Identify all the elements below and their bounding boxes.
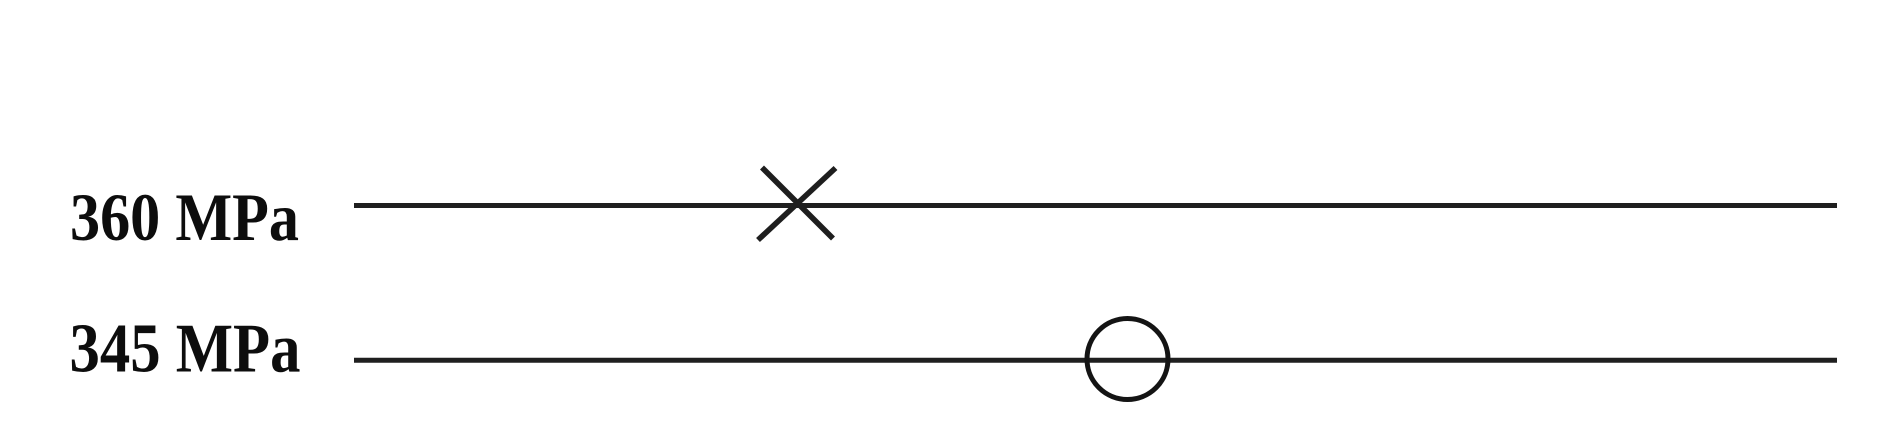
svg-text:345 MPa: 345 MPa [70,311,301,388]
svg-text:360 MPa: 360 MPa [70,180,299,255]
